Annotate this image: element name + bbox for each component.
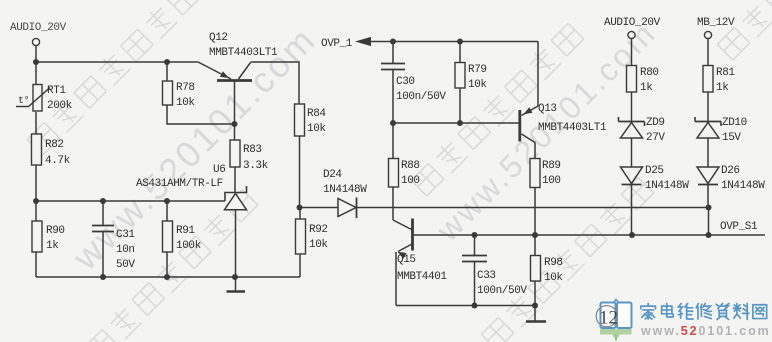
svg-text:R83: R83 <box>243 144 262 156</box>
svg-text:C30: C30 <box>396 76 415 88</box>
svg-text:OVP_S1: OVP_S1 <box>720 221 758 233</box>
junction: AUDIO_20V node <box>33 59 39 65</box>
capacitor C33 100n/50V <box>462 235 527 306</box>
wire: top-left rail <box>36 61 198 63</box>
shunt regulator U6 AS431AHM/TR-LF <box>136 164 247 277</box>
svg-text:R90: R90 <box>46 225 65 237</box>
junction: D26/OVP link node <box>706 232 712 238</box>
svg-text:3.3k: 3.3k <box>243 160 269 172</box>
svg-text:AS431AHM/TR-LF: AS431AHM/TR-LF <box>136 178 223 190</box>
net label OVP_1 <box>321 37 371 50</box>
svg-text:200k: 200k <box>47 100 73 112</box>
wire: OVP_1 rail <box>371 41 538 43</box>
svg-text:ZD9: ZD9 <box>646 117 665 129</box>
junction: mid rail left <box>33 198 39 204</box>
resistor R78 10k <box>163 62 235 124</box>
svg-text:R81: R81 <box>716 67 735 79</box>
svg-text:100: 100 <box>542 175 561 187</box>
resistor R80 1k <box>627 66 659 123</box>
svg-text:R88: R88 <box>401 160 420 172</box>
junction: C30 top <box>390 39 396 45</box>
wire: node to D24 anode <box>300 207 339 209</box>
diode D25 1N4148W <box>621 165 690 235</box>
svg-text:C33: C33 <box>477 270 496 282</box>
svg-text:D25: D25 <box>645 165 664 177</box>
junction: R98 bottom <box>532 303 538 309</box>
svg-text:1N4148W: 1N4148W <box>645 180 689 192</box>
junction: OVP node right end <box>706 205 712 211</box>
junction: R84/R92/D24 node <box>297 205 303 211</box>
svg-text:100k: 100k <box>176 240 202 252</box>
svg-text:U6: U6 <box>213 164 225 176</box>
junction: D25 cathode node <box>629 232 635 238</box>
resistor R92 10k <box>296 208 329 278</box>
svg-text:10k: 10k <box>307 123 326 135</box>
svg-text:Q12: Q12 <box>209 32 228 44</box>
junction: C33 top <box>472 232 478 238</box>
svg-text:100n/50V: 100n/50V <box>396 91 446 103</box>
svg-text:100n/50V: 100n/50V <box>477 285 527 297</box>
resistor R89 100 <box>530 159 561 236</box>
svg-text:MMBT4403LT1: MMBT4403LT1 <box>209 47 278 59</box>
thermistor RT1 200k <box>16 62 73 112</box>
svg-text:C31: C31 <box>116 229 135 241</box>
ground (U6) <box>235 277 237 291</box>
wire: OVP link vertical <box>708 208 710 236</box>
wire: AUDIO_20V to R80 <box>631 39 633 66</box>
svg-text:D26: D26 <box>721 165 740 177</box>
svg-text:10k: 10k <box>176 97 195 109</box>
wire: Q15 emitter rail <box>396 305 535 307</box>
junction: R89/R98 node <box>532 232 538 238</box>
svg-text:1N4148W: 1N4148W <box>721 180 765 192</box>
wire: OVP_S1 line (Q15 base net) <box>414 234 766 236</box>
svg-text:R79: R79 <box>468 64 487 76</box>
zener diode ZD9 27V <box>619 117 666 167</box>
junction: C31 top <box>100 198 106 204</box>
resistor R81 1k <box>703 66 735 123</box>
terminal AUDIO_20V (left) <box>10 22 67 46</box>
junction: R79 bottom <box>457 120 463 126</box>
svg-text:R82: R82 <box>45 139 64 151</box>
junction: R91 top <box>164 198 170 204</box>
svg-text:50V: 50V <box>116 259 135 271</box>
wire: Q13 base line <box>393 122 519 124</box>
resistor R79 10k <box>455 42 487 124</box>
resistor R91 100k <box>163 201 202 277</box>
svg-text:MB_12V: MB_12V <box>697 17 735 29</box>
svg-text:10k: 10k <box>468 79 487 91</box>
svg-text:Q13: Q13 <box>538 103 557 115</box>
junction: C33 bottom <box>472 303 478 309</box>
wire: terminal to top rail <box>35 46 37 62</box>
svg-text:ZD10: ZD10 <box>722 117 747 129</box>
svg-text:4.7k: 4.7k <box>45 155 71 167</box>
transistor Q12 MMBT4403LT1 (PNP) <box>198 32 278 124</box>
svg-text:R78: R78 <box>176 82 195 94</box>
svg-text:1N4148W: 1N4148W <box>323 184 367 196</box>
terminal AUDIO_20V (right) <box>604 17 661 39</box>
svg-text:t°: t° <box>18 95 29 107</box>
svg-text:15V: 15V <box>722 132 741 144</box>
svg-text:10k: 10k <box>544 272 563 284</box>
svg-text:12: 12 <box>599 308 618 329</box>
junction: Q12 base / R78 / R83 <box>232 121 238 127</box>
junction: R91 bottom <box>164 274 170 280</box>
svg-text:R91: R91 <box>176 225 195 237</box>
diode D24 1N4148W <box>323 169 367 218</box>
svg-text:R98: R98 <box>544 257 563 269</box>
ground (R98) <box>534 306 536 322</box>
wire: mid rail (U6 ref net) <box>36 200 225 202</box>
svg-text:10n: 10n <box>116 244 135 256</box>
capacitor C31 10n 50V <box>92 201 135 277</box>
wire: Q12 collector to R84 <box>251 62 300 104</box>
svg-text:D24: D24 <box>323 169 342 181</box>
capacitor C30 100n/50V <box>381 42 446 124</box>
resistor R82 4.7k <box>32 112 71 201</box>
svg-text:1k: 1k <box>46 240 59 252</box>
diode D26 1N4148W <box>697 165 765 208</box>
junction: C31 bottom <box>100 274 106 280</box>
junction: U6 anode <box>232 274 238 280</box>
svg-text:1k: 1k <box>640 82 653 94</box>
junction: R78 top <box>164 59 170 65</box>
svg-text:www.520101.com: www.520101.com <box>640 324 771 338</box>
svg-text:Q15: Q15 <box>397 254 416 266</box>
wire: MB_12V to R81 <box>707 39 709 66</box>
svg-text:MMBT4403LT1: MMBT4403LT1 <box>538 122 607 134</box>
resistor R98 10k <box>531 235 564 306</box>
transistor Q15 MMBT4401 (NPN) <box>393 219 447 306</box>
zener diode ZD10 15V <box>695 117 747 167</box>
wire: D24 cathode to OVP node (long) <box>356 207 709 209</box>
transistor Q13 MMBT4403LT1 (PNP) <box>520 42 607 159</box>
resistor R88 100 <box>389 123 420 220</box>
svg-text:R84: R84 <box>307 108 326 120</box>
resistor R84 10k <box>295 104 327 208</box>
svg-text:OVP_1: OVP_1 <box>321 38 353 50</box>
svg-text:R80: R80 <box>640 67 659 79</box>
svg-text:AUDIO_20V: AUDIO_20V <box>604 17 661 29</box>
svg-text:27V: 27V <box>646 132 665 144</box>
wire: bottom-left rail <box>36 276 300 278</box>
terminal MB_12V <box>697 17 735 39</box>
svg-text:1k: 1k <box>716 82 729 94</box>
svg-text:R92: R92 <box>309 224 328 236</box>
svg-text:AUDIO_20V: AUDIO_20V <box>10 22 67 34</box>
junction: R79 top <box>457 39 463 45</box>
junction: C30 bottom / R88 top <box>390 120 396 126</box>
resistor R83 3.3k <box>230 124 269 193</box>
svg-text:10k: 10k <box>309 239 328 251</box>
resistor R90 1k <box>32 201 65 277</box>
svg-text:R89: R89 <box>542 160 561 172</box>
svg-text:MMBT4401: MMBT4401 <box>397 271 447 283</box>
svg-text:RT1: RT1 <box>47 85 66 97</box>
svg-text:100: 100 <box>401 175 420 187</box>
